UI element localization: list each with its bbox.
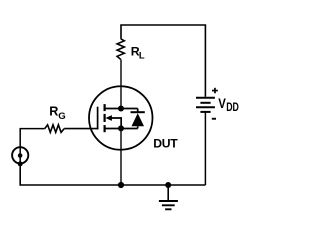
mosfet drain internal line <box>105 108 138 110</box>
ground stem <box>167 185 169 201</box>
battery VDD plate short <box>200 102 210 104</box>
wire gate lead (RG to gate bar) <box>64 128 98 130</box>
node ground junction dot <box>165 182 171 188</box>
mosfet Q1 gate bar <box>97 107 99 130</box>
mosfet body tie line to source node <box>111 118 121 129</box>
body diode bottom stub <box>137 126 139 128</box>
resistor RG <box>45 125 64 133</box>
wire generator to bottom bus <box>20 164 205 186</box>
svg-text:RG: RG <box>49 104 66 122</box>
battery VDD plate long top <box>196 97 215 99</box>
node drain junction dot <box>118 106 124 112</box>
wire gate left segment to generator <box>20 129 45 164</box>
mosfet source internal line <box>105 128 138 130</box>
body diode triangle <box>132 113 145 126</box>
body diode cathode bar <box>131 111 145 113</box>
pulse generator center dot <box>18 153 23 158</box>
node source junction dot <box>118 125 124 131</box>
mosfet channel segment top <box>103 104 105 111</box>
svg-text:RL: RL <box>131 44 145 60</box>
svg-text:DUT: DUT <box>153 136 178 150</box>
label minus <box>212 118 216 120</box>
svg-text:DD: DD <box>226 101 239 115</box>
label plus <box>212 88 218 94</box>
ground bar 1 <box>159 200 178 202</box>
wire source lead down <box>120 129 122 186</box>
wire VDD bottom rail <box>204 112 206 185</box>
mosfet body arrow (points left into channel) <box>105 115 112 121</box>
ground bar 3 <box>165 208 171 210</box>
body diode top stub <box>137 109 139 113</box>
mosfet channel segment bottom <box>103 125 105 132</box>
svg-text:V: V <box>218 96 226 111</box>
wire top rail (RL top to VDD plus rail) <box>121 25 205 97</box>
mosfet channel segment middle <box>103 114 105 122</box>
resistor RL <box>117 39 124 60</box>
node source-bus junction dot <box>118 182 124 188</box>
ground bar 2 <box>162 204 175 206</box>
pulse generator circle <box>12 147 28 163</box>
battery VDD plate short bottom <box>200 111 210 113</box>
DUT package circle <box>89 86 153 150</box>
wire drain lead <box>120 59 122 108</box>
node generator output junction dot <box>18 161 23 166</box>
battery VDD plate long bottom <box>196 106 215 108</box>
label VDD <box>218 96 239 114</box>
